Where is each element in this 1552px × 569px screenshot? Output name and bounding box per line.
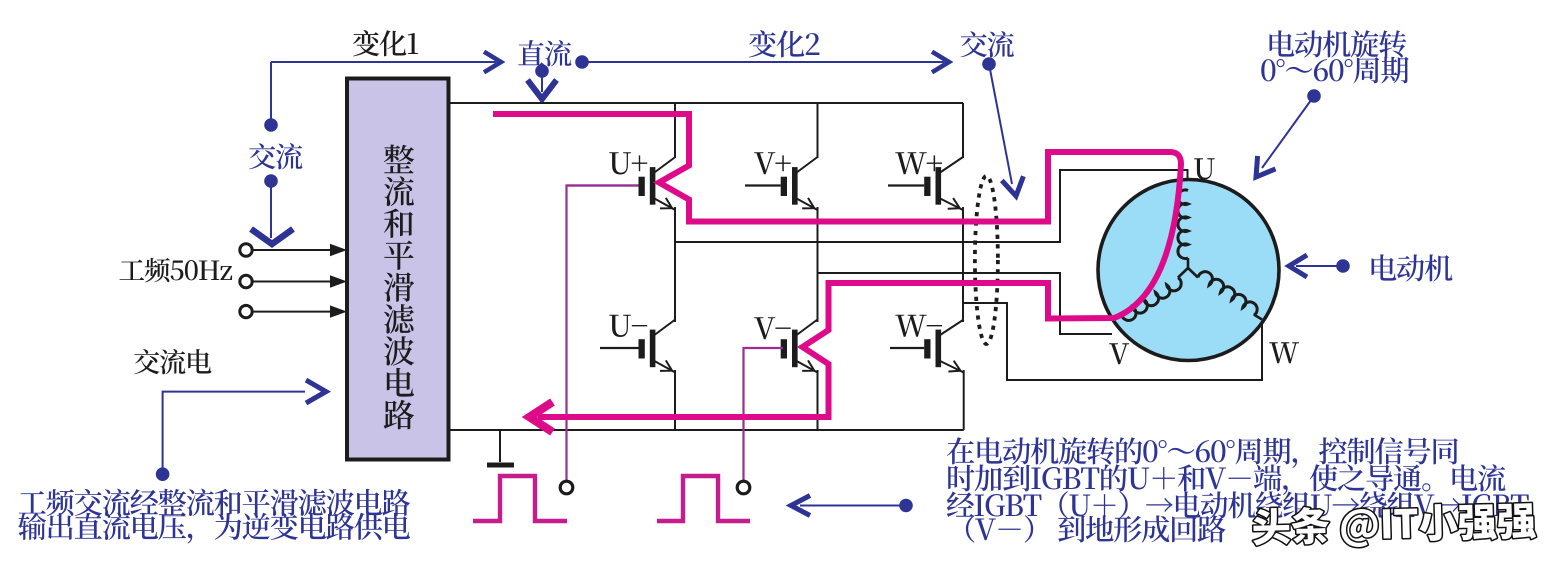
label 交流 left [249, 143, 302, 169]
label W motor [1269, 342, 1299, 363]
label 变化1 [353, 30, 418, 56]
wire top bus [450, 102, 963, 104]
node dot 电动机 [1336, 259, 1350, 273]
wire V output [818, 273, 1113, 334]
label W- [895, 315, 942, 337]
wire input 1 [253, 249, 331, 251]
wire 变化2 line [582, 61, 944, 63]
terminal V- gate [737, 481, 750, 494]
box text 和 [384, 209, 413, 238]
transistor U+ [650, 167, 656, 205]
transistor U- [650, 330, 656, 368]
wire U output [675, 170, 1188, 242]
box text 流 [384, 176, 414, 206]
node dot 交流 right [982, 57, 996, 71]
box text 路 [384, 400, 414, 430]
box text 整 [384, 145, 414, 174]
wire W+ collector [962, 103, 964, 158]
paragraph line1 [947, 437, 1458, 468]
wire 电动机 arrow [1296, 265, 1343, 267]
wire pulses arrow [800, 505, 906, 507]
wire 直流 arrow down [541, 71, 543, 92]
winding V [1122, 278, 1182, 321]
wire W phase vertical [962, 207, 964, 322]
node dot pulses arrow [899, 499, 913, 513]
label 电动机 [1372, 254, 1453, 281]
node dot 交流电 [156, 467, 170, 481]
ground [499, 430, 501, 462]
wire U+ gate drive [567, 186, 639, 481]
label bottom-left line1 [19, 489, 411, 517]
wire 变化1 arrow line [271, 61, 496, 63]
box text 滑 [384, 272, 414, 301]
winding W [1198, 272, 1257, 316]
label 变化2 [749, 30, 820, 57]
label U+ [609, 152, 647, 174]
wire 交流 right arrow [989, 64, 1012, 184]
label V motor [1109, 343, 1129, 364]
cable ellipse [975, 176, 998, 344]
transistor V- [792, 330, 798, 368]
wire AC drop line [270, 62, 272, 125]
pulse U+ [473, 476, 567, 521]
paragraph line2 [948, 464, 1505, 495]
terminal U+ gate [560, 481, 573, 494]
wire input 2 [253, 281, 331, 283]
winding U [1178, 190, 1188, 259]
node dot AC top [264, 118, 278, 132]
paragraph line4 [966, 515, 1226, 543]
wire W- emitter [963, 370, 965, 430]
transistor W+ [936, 167, 942, 205]
wire V+ collector [817, 103, 819, 158]
rectifier box [347, 79, 449, 460]
label 直流 [518, 40, 571, 66]
transistor W- [936, 330, 942, 368]
pulse V- [657, 476, 750, 521]
box text 滤 [384, 304, 414, 334]
wire V- gate drive [744, 348, 781, 480]
box text 波 [384, 336, 414, 365]
wire W output [963, 303, 1262, 380]
transistor V+ [792, 167, 798, 205]
node dot 电动机旋转 [1307, 89, 1321, 103]
label 工频50Hz [120, 258, 233, 283]
current path arrowhead [530, 402, 553, 432]
node dot AC bottom [264, 174, 278, 188]
box text 电 [387, 368, 414, 397]
terminal input 2 [240, 275, 252, 287]
wire 交流电 arrow [163, 392, 305, 475]
label bottom-left line2 [18, 513, 410, 544]
box text 平 [384, 241, 414, 270]
label U motor [1194, 158, 1215, 179]
node dot 变化2 start [575, 55, 589, 69]
wire bottom bus [450, 429, 964, 431]
wire U+ collector [674, 103, 676, 158]
label U- [609, 315, 647, 337]
paragraph line3 [947, 491, 1529, 518]
motor star point [1187, 258, 1190, 268]
watermark [1252, 501, 1536, 550]
label 电动机旋转 [1270, 30, 1407, 57]
wire 电动机旋转 arrow [1262, 96, 1314, 168]
wire V- emitter [817, 370, 819, 430]
wire V phase vertical [817, 207, 819, 322]
label 交流 right [961, 31, 1014, 57]
wire U phase vertical [674, 207, 676, 322]
terminal input 3 [240, 305, 252, 317]
wire AC arrow down [270, 181, 272, 238]
current path main [493, 114, 1181, 417]
label V+ [754, 152, 791, 174]
label 交流电 [134, 349, 211, 374]
node dot 直流 [535, 64, 549, 78]
label V- [754, 317, 791, 339]
label W+ [895, 152, 942, 174]
terminal input 1 [240, 244, 252, 256]
wire U- emitter [674, 370, 676, 430]
motor body [1098, 180, 1279, 361]
wire input 3 [253, 311, 331, 313]
label 0~60 周期 [1261, 57, 1408, 84]
